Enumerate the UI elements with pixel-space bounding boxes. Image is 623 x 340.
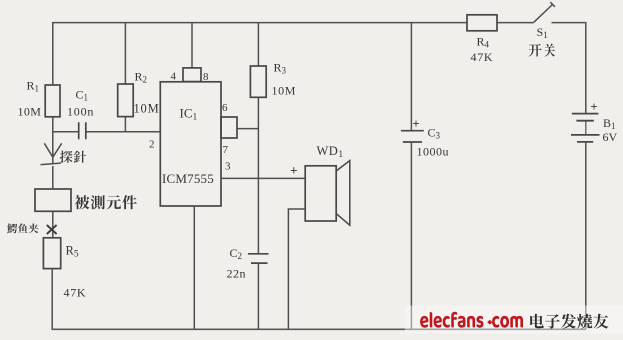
wire: speaker return to ground bbox=[288, 209, 305, 329]
speaker WD1 body bbox=[305, 166, 336, 221]
op-amp U1: IC1 ICM7555 body bbox=[160, 82, 221, 206]
wire: rail down to R2 bbox=[124, 22, 126, 84]
svg-text:47K: 47K bbox=[471, 50, 494, 64]
svg-text:+: + bbox=[413, 117, 420, 131]
wire: rail down to C3 bbox=[410, 22, 412, 130]
logo com bbox=[492, 316, 523, 328]
svg-text:+: + bbox=[290, 163, 298, 178]
DUT box (被测元件) bbox=[35, 189, 71, 211]
svg-text:ICM7555: ICM7555 bbox=[162, 171, 214, 186]
svg-text:47K: 47K bbox=[64, 286, 87, 300]
wire: DUT down to R5 bbox=[52, 211, 54, 238]
wire: left branch from rail down to R1 bbox=[52, 22, 54, 85]
wire: pin 3 output to speaker bbox=[221, 177, 305, 179]
probe tip bar bbox=[41, 163, 61, 165]
logo separator diamond bbox=[487, 320, 492, 325]
bottom ground rail bbox=[52, 328, 586, 330]
wire: C1 right plate to IC pin 2 bbox=[86, 131, 161, 133]
svg-text:+: + bbox=[591, 100, 598, 114]
svg-text:10M: 10M bbox=[134, 102, 160, 116]
svg-text:6V: 6V bbox=[603, 130, 618, 144]
wire: top supply rail bbox=[53, 22, 467, 24]
svg-text:6: 6 bbox=[222, 102, 228, 114]
wire: R3 bottom down to C2 bbox=[257, 97, 259, 253]
clip X symbol bbox=[47, 225, 57, 234]
svg-text:1000u: 1000u bbox=[417, 145, 450, 159]
logo elecfans bbox=[420, 312, 483, 328]
wire: probe to DUT box bbox=[52, 166, 54, 189]
resistor R3 bbox=[250, 66, 266, 97]
capacitor C2 bbox=[248, 254, 269, 263]
svg-text:10M: 10M bbox=[272, 84, 296, 98]
label 鳄鱼夹 (clip) bbox=[7, 223, 38, 233]
svg-text:22n: 22n bbox=[227, 267, 247, 281]
speaker WD1 cone bbox=[336, 161, 350, 226]
watermark band bbox=[405, 306, 623, 334]
wire: 6-7 box to R3 net bbox=[237, 128, 258, 130]
resistor R1 bbox=[45, 85, 60, 117]
svg-text:7: 7 bbox=[223, 144, 229, 156]
wire: C3 to ground rail bbox=[410, 142, 412, 329]
probe arrowhead (探针) bbox=[44, 143, 61, 157]
wire: R1 bottom down through C1 node to probe bbox=[52, 117, 54, 164]
wire: switch to battery corner bbox=[552, 22, 586, 24]
wire: R2 bottom to pin2 net bbox=[124, 117, 126, 132]
wire: rail down to R3 bbox=[257, 22, 259, 66]
capacitor C1 bbox=[79, 122, 86, 139]
pin 4-8 link box bbox=[183, 68, 201, 82]
label 开关 (switch) bbox=[529, 44, 556, 57]
battery B1 plates bbox=[571, 114, 600, 142]
wire: rail down to reset/vcc box bbox=[191, 22, 193, 68]
label 被测元件 (device under test) bbox=[75, 195, 137, 209]
wire: node to C1 left plate bbox=[53, 131, 79, 133]
wire: IC ground pin down to rail bbox=[193, 206, 195, 329]
resistor R5 bbox=[43, 238, 60, 269]
wire: battery to ground rail bbox=[585, 142, 587, 329]
svg-text:3: 3 bbox=[225, 161, 231, 173]
battery cell link bbox=[585, 121, 587, 135]
pin 6-7 box on IC right edge bbox=[221, 117, 237, 138]
wire: R5 to ground rail bbox=[51, 269, 53, 330]
switch S1 blade bbox=[534, 2, 555, 22]
wire: C2 to ground rail bbox=[257, 263, 259, 329]
svg-text:4: 4 bbox=[171, 71, 177, 83]
svg-text:100n: 100n bbox=[67, 105, 94, 119]
resistor R4 (horizontal) bbox=[467, 15, 497, 31]
label 探针 (probe) bbox=[60, 151, 86, 163]
wire: down to battery bbox=[585, 22, 587, 113]
resistor R2 bbox=[118, 84, 134, 117]
logo 电子发烧友 bbox=[530, 314, 608, 329]
wire: R4 to switch bbox=[497, 22, 534, 24]
svg-text:2: 2 bbox=[149, 139, 155, 151]
capacitor C3 (electrolytic) bbox=[401, 131, 424, 142]
svg-text:10M: 10M bbox=[18, 105, 42, 119]
